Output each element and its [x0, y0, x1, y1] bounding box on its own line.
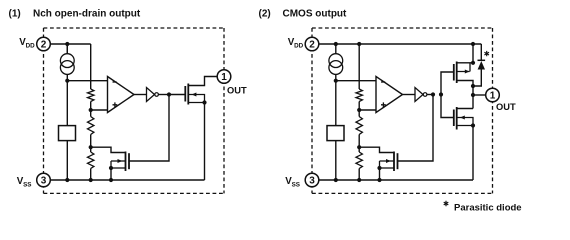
op-amp minus label (circuit 1)	[113, 81, 117, 83]
svg-text:1: 1	[490, 91, 496, 102]
wire R3 to VSS rail (circuit 2)	[358, 169, 360, 181]
wire Q2 gate feedback (circuit 2)	[398, 95, 434, 162]
Q3 drain stub (circuit 2)	[457, 81, 473, 87]
Q2 source stub (circuit 1)	[111, 167, 126, 169]
Q4 body arrow, N-channel (circuit 2)	[457, 118, 473, 126]
Q3 channel bar (circuit 2)	[456, 62, 458, 84]
wire R2 to tap2 (circuit 1)	[90, 135, 92, 148]
node inverter output (circuit 2)	[431, 92, 435, 96]
svg-text:DD: DD	[26, 43, 36, 50]
op-amp comparator (circuit 1)	[108, 77, 135, 113]
Q2 body arrow (circuit 2)	[380, 160, 395, 162]
wire R3 to VSS rail (circuit 1)	[90, 169, 92, 181]
node reference (circuit 1)	[65, 79, 69, 83]
node VSS rail / Q2 source (circuit 1)	[109, 178, 113, 182]
svg-text:SS: SS	[292, 181, 300, 188]
wire output column (circuit 2)	[472, 86, 474, 109]
Q2 body arrow (circuit 1)	[111, 160, 126, 162]
current source I1 (circuit 2)	[335, 44, 337, 81]
wire R1 to tap1 (circuit 2)	[358, 102, 360, 111]
wire R1 to tap1 (circuit 1)	[90, 102, 92, 111]
node VDD rail / current-source tap (circuit 2)	[334, 42, 338, 46]
Q2 gate bar (circuit 1)	[128, 153, 130, 169]
wire Q2 body to source (circuit 2)	[379, 161, 381, 168]
wire inverter to output node (circuit 1)	[159, 94, 170, 96]
asterisk marker for parasitic diode (circuit 2)	[484, 51, 489, 56]
svg-text:Parasitic diode: Parasitic diode	[454, 203, 522, 214]
inverter buffer (circuit 1)	[147, 88, 155, 102]
wire reference to op-amp inverting input (circuit 2)	[336, 80, 376, 82]
wire Q1 drain to OUT pin (circuit 1)	[188, 77, 217, 86]
wire tap1 to R2 (circuit 1)	[90, 110, 92, 117]
voltage reference box (circuit 2)	[327, 126, 344, 141]
wire tap2 to R3 (circuit 1)	[90, 147, 92, 152]
node OUT tap (circuit 2)	[471, 93, 475, 97]
op-amp minus label (circuit 2)	[381, 81, 385, 83]
wire Q2 body to source (circuit 1)	[110, 161, 112, 168]
resistor R2 (circuit 2)	[356, 117, 362, 135]
node divider tap1 (circuit 1)	[89, 108, 93, 112]
node Q2 source/body (circuit 1)	[109, 166, 113, 170]
wire OUT node to pin 1 (circuit 2)	[473, 94, 486, 96]
wire Q2 source to VSS rail (circuit 2)	[379, 168, 381, 180]
pin 2 VDD (circuit 2)	[305, 37, 319, 51]
wire Q1 source to VSS rail (circuit 1)	[204, 103, 206, 181]
wire Q2 gate feedback (circuit 1)	[129, 95, 169, 162]
pin 3 VSS (circuit 2)	[305, 173, 319, 187]
wire VDD pin to top rail	[319, 43, 336, 45]
node VSS rail / divider (circuit 1)	[89, 178, 93, 182]
wire VDD top rail end into divider (circuit 1)	[67, 43, 90, 45]
Q4 drain stub (circuit 2)	[457, 108, 473, 110]
resistor R3 (circuit 2)	[356, 152, 362, 169]
pin 2 VDD (circuit 1)	[37, 37, 51, 51]
node VDD rail / P-ch source column (circuit 2)	[471, 42, 475, 46]
resistor R3 (circuit 1)	[88, 152, 94, 169]
svg-text:CMOS output: CMOS output	[283, 9, 348, 20]
Q1 channel bar (circuit 1)	[187, 84, 189, 105]
inverter output bubble (circuit 1)	[155, 93, 159, 97]
wire box to VSS rail (circuit 2)	[335, 141, 337, 180]
wire reference column down to box (circuit 1)	[66, 81, 68, 126]
node divider tap1 (circuit 2)	[357, 108, 361, 112]
node reference (circuit 2)	[334, 79, 338, 83]
hysteresis transistor Q2 (circuit 1) : mirrored N-channel MOSFET	[125, 152, 127, 172]
wire tap2 to Q2 drain (circuit 2)	[359, 147, 394, 152]
node Q4 source/body (circuit 2)	[471, 123, 475, 127]
node inverter output to gates (circuit 2)	[439, 92, 443, 96]
VDD top rail (circuit 2)	[336, 43, 482, 45]
svg-text:3: 3	[309, 176, 315, 187]
Q2 gate bar (circuit 2)	[397, 153, 399, 169]
wire VDD pin to top rail	[50, 43, 67, 45]
node VDD rail / divider tap (circuit 2)	[357, 42, 361, 46]
wire current source top (circuit 1)	[66, 44, 68, 54]
node inverter output (circuit 1)	[167, 92, 171, 96]
node VSS rail / box column (circuit 2)	[334, 178, 338, 182]
wire output node to Q1 gate (circuit 1)	[169, 94, 185, 96]
wire R2 to tap2 (circuit 2)	[358, 135, 360, 148]
op-amp comparator (circuit 2)	[376, 77, 403, 113]
IC boundary dashed box (circuit 2)	[312, 28, 493, 193]
VSS rail (circuit 2)	[319, 179, 473, 181]
wire VDD to divider R1 (circuit 2) crossing reference wire (no junction)	[358, 44, 360, 89]
node VDD rail / current-source tap (circuit 1)	[65, 42, 69, 46]
node VSS rail / box column (circuit 1)	[65, 178, 69, 182]
node Q3 drain / diode anode (circuit 2)	[471, 84, 475, 88]
wire op-amp output to inverter (circuit 2)	[403, 94, 408, 96]
wire Q4 source to VSS rail (circuit 2)	[472, 126, 474, 181]
wire inverter to output node (circuit 2)	[427, 94, 433, 96]
svg-text:3: 3	[41, 176, 47, 187]
svg-text:2: 2	[309, 40, 315, 51]
wire tap1 to op-amp non-inverting input (circuit 2)	[359, 109, 376, 111]
resistor R1 (circuit 2)	[356, 89, 362, 102]
svg-text:OUT: OUT	[227, 86, 247, 96]
svg-text:2: 2	[41, 40, 47, 51]
IC boundary dashed box (circuit 1)	[44, 28, 225, 193]
output N-channel transistor Q4 gate bar (circuit 2)	[453, 110, 455, 127]
wire tap1 to op-amp non-inverting input (circuit 1)	[91, 109, 108, 111]
output P-channel transistor Q3 gate bar (circuit 2)	[453, 64, 455, 81]
op-amp plus label (circuit 1)	[113, 102, 118, 107]
svg-text:SS: SS	[23, 181, 31, 188]
pin 3 VSS (circuit 1)	[37, 173, 51, 187]
inverter buffer (circuit 2)	[415, 88, 423, 102]
op-amp plus label (circuit 2)	[381, 102, 386, 107]
node VSS rail / divider (circuit 2)	[357, 178, 361, 182]
node Q1 source/body (circuit 1)	[202, 100, 206, 104]
node VSS rail / Q2 source (circuit 2)	[377, 178, 381, 182]
inverter output bubble (circuit 2)	[423, 93, 427, 97]
wire gate column to P-ch and N-ch gates (circuit 2)	[441, 72, 454, 118]
svg-text:DD: DD	[294, 43, 304, 50]
wire tap1 to R2 (circuit 2)	[358, 110, 360, 117]
wire reference column down to box (circuit 2)	[335, 81, 337, 126]
pin 1 OUT (circuit 2)	[486, 88, 500, 102]
current source I1 (circuit 1)	[66, 44, 68, 81]
footnote: * Parasitic diode	[444, 201, 449, 206]
Q4 channel bar (circuit 2)	[456, 107, 458, 130]
wire tap2 to R3 (circuit 2)	[358, 147, 360, 152]
hysteresis transistor Q2 (circuit 2) : mirrored N-channel MOSFET	[393, 152, 395, 172]
node divider tap2 / hysteresis tap (circuit 1)	[89, 145, 93, 149]
wire tap2 to Q2 drain (circuit 1)	[91, 147, 126, 152]
svg-text:1: 1	[221, 72, 227, 83]
pin 1 OUT (circuit 1)	[217, 70, 231, 84]
wire VDD to divider R1 (circuit 1) crossing reference wire (no junction)	[90, 44, 92, 89]
svg-text:(1): (1)	[9, 9, 21, 20]
resistor R2 (circuit 1)	[88, 117, 94, 135]
Q1 body arrow (circuit 1)	[188, 95, 204, 103]
svg-text:(2): (2)	[259, 9, 271, 20]
wire Q2 source to VSS rail (circuit 1)	[110, 168, 112, 180]
voltage reference box (circuit 1)	[59, 126, 76, 141]
VSS rail (circuit 1)	[50, 179, 204, 181]
node divider tap2 / hysteresis tap (circuit 2)	[357, 145, 361, 149]
Q4 source stub (circuit 2)	[457, 125, 473, 127]
output transistor Q1 (circuit 1) : N-channel open-drain MOSFET, gate bar	[184, 86, 186, 102]
Q2 source stub (circuit 2)	[380, 167, 395, 169]
wire box to VSS rail (circuit 1)	[66, 141, 68, 180]
Q3 body arrow, P-channel (circuit 2)	[457, 63, 470, 72]
svg-text:OUT: OUT	[496, 102, 516, 112]
Q3 source stub to VDD rail (circuit 2)	[457, 44, 473, 63]
node Q2 source/body (circuit 2)	[377, 166, 381, 170]
svg-text:Nch open-drain output: Nch open-drain output	[33, 9, 141, 20]
parasitic diode D1 (circuit 2)	[473, 44, 481, 86]
Q1 source stub (circuit 1)	[188, 102, 204, 104]
wire op-amp output to inverter (circuit 1)	[134, 94, 139, 96]
node Q3 source (circuit 2)	[471, 61, 475, 65]
resistor R1 (circuit 1)	[88, 89, 94, 102]
wire reference to op-amp inverting input (circuit 1)	[67, 80, 107, 82]
